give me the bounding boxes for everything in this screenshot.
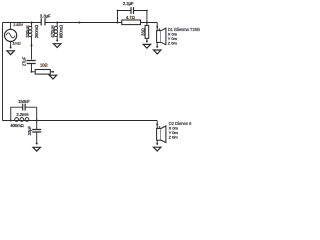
inductor L2 470uH wire <box>56 23 58 41</box>
node rail mid <box>78 22 80 24</box>
svg-text:33Ω: 33Ω <box>141 28 146 36</box>
wire R10 to ground <box>50 71 53 73</box>
capacitor C notch 27uF plates <box>27 61 36 64</box>
resistor R 33ohm box <box>145 25 149 38</box>
ground below D2 <box>154 147 161 151</box>
capacitor C 3.3uF series plates <box>41 18 45 25</box>
ground after R10 <box>49 75 56 79</box>
wire woofer row <box>3 120 158 122</box>
svg-text:Z 0m: Z 0m <box>168 41 178 46</box>
node rail shunt coil <box>56 22 58 24</box>
AC source V1 sine <box>6 33 15 38</box>
wire gap mask for 2.2uF <box>132 10 133 11</box>
speaker D1 box <box>157 31 161 43</box>
node L2 bottom <box>56 40 58 42</box>
node rail riser left <box>117 22 119 24</box>
svg-text:400mΩ: 400mΩ <box>10 123 23 128</box>
wire gap mask for series cap <box>42 22 45 24</box>
svg-text:2.2mH: 2.2mH <box>16 112 28 117</box>
node rail notch branch <box>31 22 33 24</box>
wire to woofer <box>156 121 158 129</box>
speaker D2 box <box>157 128 161 140</box>
speaker D1 cone <box>161 28 166 45</box>
node R33 bottom <box>146 40 148 42</box>
svg-text:330µH: 330µH <box>25 25 30 37</box>
capacitor C 2.2uF plates <box>131 7 134 14</box>
svg-text:1mΩ: 1mΩ <box>12 42 20 46</box>
inductor L2 470uH coil <box>54 26 58 30</box>
ground below source <box>7 51 14 55</box>
AC source V1 stub top <box>10 23 12 30</box>
wire notch cap to corner <box>32 64 36 72</box>
ground below L2 <box>54 44 61 48</box>
capacitor C 150nF plates <box>23 104 25 111</box>
resistor R 4.7ohm box <box>122 20 141 25</box>
svg-text:33µF: 33µF <box>27 125 32 135</box>
svg-text:2.83V: 2.83V <box>13 23 23 27</box>
node source bottom <box>10 47 12 49</box>
speaker D2 plus <box>159 126 161 128</box>
svg-text:4.7Ω: 4.7Ω <box>126 15 135 20</box>
node rail 4-way <box>146 22 148 24</box>
inductor L1 330uH coil <box>28 26 32 30</box>
svg-text:27µF: 27µF <box>22 56 27 66</box>
woofer block riser left <box>11 107 37 120</box>
wire D2 to ground <box>156 140 158 144</box>
svg-text:260mΩ: 260mΩ <box>34 25 39 38</box>
node L1 bottom <box>31 44 33 46</box>
svg-text:3.3µF: 3.3µF <box>40 13 51 18</box>
svg-text:980mΩ: 980mΩ <box>59 25 64 38</box>
svg-text:10Ω: 10Ω <box>40 63 48 68</box>
svg-text:2.2µF: 2.2µF <box>123 1 134 6</box>
node block right <box>36 120 38 122</box>
ground below R33 <box>143 44 150 48</box>
node cap row left corner <box>117 10 119 12</box>
AC source V1 circle <box>5 29 17 41</box>
wire riser up to cap row <box>118 11 147 23</box>
svg-text:150nF: 150nF <box>18 99 30 104</box>
resistor R 33ohm wire top <box>146 23 148 26</box>
ground below D1 <box>154 50 161 54</box>
ground below shunt cap <box>33 147 40 151</box>
node notch corner <box>31 71 33 73</box>
node D1 bottom <box>156 46 158 48</box>
wire top rail <box>3 22 122 24</box>
node block left <box>10 120 12 122</box>
wire R33 bottom <box>146 38 148 41</box>
wire source bottom <box>10 42 12 48</box>
node after R10 <box>52 71 54 73</box>
svg-text:470µH: 470µH <box>50 25 55 37</box>
wire D1 to ground <box>156 42 158 46</box>
inductor L1 330uH wire <box>31 23 33 60</box>
resistor R 10ohm box <box>35 70 50 75</box>
svg-text:Z 0m: Z 0m <box>169 135 179 140</box>
node cap row right corner <box>146 10 148 12</box>
node shunt cap bottom <box>36 143 38 145</box>
capacitor C woofer shunt plates <box>32 130 41 133</box>
inductor L3 2.2mH coil <box>15 118 19 122</box>
wire left edge down to woofer row <box>2 23 4 121</box>
wire rail right of R 4.7 <box>141 22 158 24</box>
capacitor C woofer shunt wire <box>36 121 38 144</box>
speaker D1 plus <box>159 28 161 30</box>
wire to tweeter <box>156 23 158 31</box>
wire gap mask 150nF <box>23 107 24 108</box>
node D2 bottom <box>156 143 158 145</box>
speaker D2 cone <box>161 126 166 143</box>
